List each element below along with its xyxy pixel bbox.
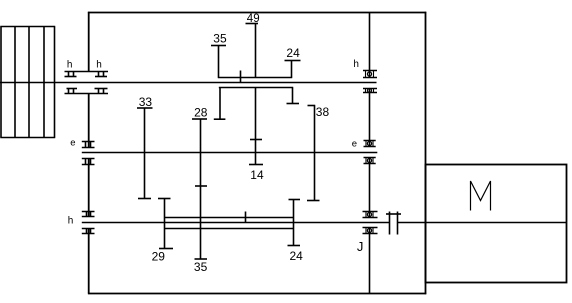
hatched input block inner line 1 xyxy=(14,27,16,138)
vertical shaft bearing at shaft III upper stems xyxy=(366,212,373,218)
gear 38 stem xyxy=(314,106,316,201)
housing box left wall segment 1 xyxy=(88,12,90,72)
motor housing xyxy=(426,165,567,283)
bearing h2 lower inner bar xyxy=(95,88,108,90)
hatched input block inner line 3 xyxy=(43,27,45,138)
bearing pair lower long bar xyxy=(65,93,109,95)
gear 28 leader underline xyxy=(192,118,207,120)
lower bracket right tip bar xyxy=(287,103,300,105)
gear 14 bottom bar xyxy=(249,164,263,166)
lower bracket left stem xyxy=(219,88,221,120)
hatched input block bottom edge xyxy=(0,137,55,139)
gear 35b underline xyxy=(195,258,208,260)
gear 33 stem xyxy=(144,108,146,199)
gear 49 leader underline xyxy=(246,23,259,25)
gear 24 leader underline xyxy=(285,60,301,62)
motor letter M xyxy=(471,181,491,211)
gear 33 bottom bar xyxy=(138,198,151,200)
vertical shaft segment 4 xyxy=(369,228,371,294)
gear 49 stem xyxy=(255,24,257,78)
mesh tick lower xyxy=(245,212,247,223)
coupling sleeve bar xyxy=(386,213,401,215)
hatched input block right edge xyxy=(54,27,56,138)
shaft I xyxy=(0,82,377,84)
svg-text:J: J xyxy=(357,239,364,254)
svg-text:h: h xyxy=(353,59,359,70)
svg-text:14: 14 xyxy=(250,168,264,182)
gear 14 top tick xyxy=(250,139,262,141)
bearing h2 lower stems xyxy=(99,89,104,94)
bearing h1 lower inner bar xyxy=(67,88,78,90)
bearing e lower stems xyxy=(86,159,91,165)
bearing h1 upper stems xyxy=(69,72,74,77)
bearing h3 lower bars xyxy=(82,229,95,234)
shaft III cluster left tip bar xyxy=(158,198,171,200)
vertical shaft bearing at shaft III : lower bars xyxy=(363,228,378,234)
hatched input block top edge xyxy=(0,26,55,28)
gear 24 stem xyxy=(291,61,293,78)
vertical shaft bearing at shaft I lower ball xyxy=(368,89,372,93)
svg-text:e: e xyxy=(70,138,75,149)
vertical shaft bearing at shaft I : upper bars xyxy=(363,71,377,78)
bearing e lower bars xyxy=(82,159,95,165)
vertical shaft bearing at shaft II : upper bars xyxy=(364,141,376,147)
svg-text:e: e xyxy=(352,138,357,149)
gear 29 underline xyxy=(159,248,173,250)
vertical shaft bearing at shaft II lower ball xyxy=(367,158,371,162)
gear 28 stem xyxy=(200,119,202,218)
svg-text:33: 33 xyxy=(139,95,153,109)
housing box bottom edge xyxy=(88,293,426,295)
shaft III cluster left stem xyxy=(164,199,166,249)
shaft III cluster mid stem xyxy=(200,218,202,260)
housing box left wall segment 2 xyxy=(88,94,90,148)
svg-text:35: 35 xyxy=(213,32,227,46)
svg-text:28: 28 xyxy=(194,106,208,120)
gear 14 stem xyxy=(255,88,257,165)
svg-text:h: h xyxy=(68,216,74,227)
sliding cluster upper bracket bar on shaft III xyxy=(164,217,294,219)
svg-text:h: h xyxy=(96,60,102,71)
vertical shaft bearing at shaft I upper stems xyxy=(366,71,374,78)
vertical shaft segment 1 xyxy=(369,12,371,78)
bearing h2 upper inner bar xyxy=(95,76,107,78)
vertical shaft segment 2 xyxy=(369,89,371,147)
bearing h2 upper stems xyxy=(99,72,104,77)
shaft III cluster right tip bar xyxy=(289,199,301,201)
gear 33 leader underline xyxy=(137,107,153,109)
bearing h3 lower stems xyxy=(87,229,91,234)
svg-text:24: 24 xyxy=(290,249,304,263)
gear 38 bottom bar xyxy=(307,200,320,202)
svg-text:29: 29 xyxy=(152,250,166,264)
vertical shaft bearing at shaft III upper ball xyxy=(367,212,371,216)
bearing h1 lower stems xyxy=(69,89,74,94)
gear 38 top bar xyxy=(308,105,316,107)
hatched input block inner line 2 xyxy=(28,27,30,138)
gear 35 leader underline xyxy=(211,45,226,47)
svg-text:38: 38 xyxy=(316,105,330,119)
gear 28 tick xyxy=(195,185,207,187)
hatched input block left edge xyxy=(0,27,2,138)
svg-text:35: 35 xyxy=(194,260,208,274)
shaft II xyxy=(82,152,378,154)
bearing pair h-h on shaft I at left wall : upper long bar xyxy=(65,71,109,73)
bearing e upper stems xyxy=(86,142,91,148)
vertical shaft bearing at shaft III lower ball xyxy=(367,228,371,232)
coupling right disc xyxy=(397,212,399,235)
coupling left disc xyxy=(389,212,391,235)
vertical shaft bearing at shaft I lower stems xyxy=(366,89,374,93)
svg-text:24: 24 xyxy=(286,46,300,60)
sliding cluster lower bracket bar on shaft III xyxy=(164,228,294,230)
svg-text:h: h xyxy=(67,60,73,71)
vertical shaft bearing at shaft II : lower bars xyxy=(364,158,376,164)
vertical shaft bearing at shaft II upper ball xyxy=(367,141,371,145)
vertical shaft bearing at shaft I upper ball xyxy=(367,72,371,76)
bearing h on shaft III at left wall : upper bars xyxy=(82,212,95,217)
shaft III cluster right stem xyxy=(293,200,295,246)
gear 24b underline xyxy=(288,245,301,247)
shaft III motor side segment xyxy=(398,222,567,224)
vertical shaft bearing at shaft III lower stems xyxy=(366,228,373,234)
vertical shaft segment 3 xyxy=(369,158,371,218)
vertical shaft bearing at shaft I : lower bars xyxy=(363,89,377,93)
vertical shaft bearing at shaft III : upper bars xyxy=(363,212,378,218)
sliding cluster upper bracket bar on shaft I xyxy=(218,77,292,79)
housing box left wall segment 4 xyxy=(88,229,90,294)
gear 35 stem xyxy=(218,46,220,78)
lower bracket left tip bar xyxy=(214,118,226,120)
lower bracket right stem xyxy=(292,88,294,104)
bearing e on shaft II at left wall : upper bars xyxy=(82,142,95,148)
vertical shaft bearing at shaft II upper stems xyxy=(366,141,373,147)
bearing h1 upper inner bar xyxy=(65,76,77,78)
housing box top edge xyxy=(88,12,426,14)
vertical shaft bearing at shaft II lower stems xyxy=(366,158,373,164)
sliding cluster lower bracket bar on shaft I xyxy=(219,87,293,89)
svg-text:49: 49 xyxy=(247,13,260,25)
housing box right wall xyxy=(425,12,427,294)
bearing h3 upper stems xyxy=(87,212,91,217)
shaft III xyxy=(82,222,390,224)
mesh tick upper xyxy=(240,71,242,83)
housing box left wall segment 3 xyxy=(88,159,90,217)
